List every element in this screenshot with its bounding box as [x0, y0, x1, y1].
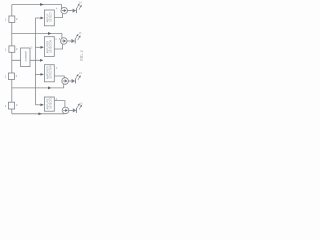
box 3 rotated text — [46, 65, 52, 79]
meter M4 — [62, 107, 69, 114]
svg-text:DETECTOR: DETECTOR — [49, 65, 52, 78]
box 1 rotated text — [46, 12, 52, 23]
wire branch to box 3 — [35, 73, 43, 75]
svg-text:SCANNER: SCANNER — [25, 50, 28, 61]
wire branch to box 2 — [35, 46, 43, 48]
svg-text:1: 1 — [5, 18, 7, 22]
wire tap 2 — [12, 34, 62, 39]
box 3 amplifier-detector — [44, 65, 54, 82]
LED D1 — [67, 4, 81, 13]
box 2 rotated text — [46, 40, 52, 54]
wire arrow on top bus — [40, 4, 43, 6]
meter M1 — [61, 7, 68, 14]
svg-text:2: 2 — [16, 103, 18, 107]
wire box 4 output to meter M4 — [54, 101, 65, 108]
transducer 10a — [9, 16, 15, 22]
box reference labels — [55, 6, 61, 101]
box 2 amplifier-detector — [44, 37, 54, 57]
svg-text:4: 4 — [56, 66, 58, 70]
LED D2 — [67, 34, 80, 43]
wire arrow on tap 4 — [48, 87, 52, 89]
svg-text:DETECTOR: DETECTOR — [49, 40, 52, 53]
wire top bus tap 1 — [12, 5, 62, 9]
wire box 2 output to meter M2 — [54, 44, 62, 49]
svg-text:4: 4 — [56, 6, 58, 10]
wire box 3 output to meter M3 — [54, 76, 64, 78]
svg-text:2: 2 — [16, 17, 18, 21]
box 5 oscillator — [21, 48, 30, 67]
wire tap 4 — [12, 84, 64, 88]
wire box 1 output to meter M1 — [54, 14, 62, 18]
box 1 amplifier-detector — [44, 10, 54, 26]
svg-text:2: 2 — [16, 47, 18, 51]
transducer 10b — [9, 46, 15, 52]
wire arrow on tap 2 — [48, 33, 52, 35]
wire middle bus vertical — [34, 18, 36, 105]
svg-text:3: 3 — [31, 46, 33, 50]
svg-text:DETECT: DETECT — [49, 12, 52, 22]
wire tap 3 — [12, 59, 43, 61]
svg-text:2: 2 — [16, 74, 18, 78]
svg-text:16: 16 — [79, 31, 82, 35]
svg-text:16: 16 — [79, 0, 82, 4]
meter M2 — [61, 38, 68, 45]
wire branch to box 1 — [35, 17, 43, 19]
box 4 amplifier-detector — [44, 97, 54, 111]
svg-text:1: 1 — [5, 48, 7, 52]
wire branch to box 4 — [35, 104, 43, 106]
svg-text:1: 1 — [5, 75, 7, 79]
svg-text:16: 16 — [80, 102, 83, 106]
svg-text:FIG. 2: FIG. 2 — [80, 50, 83, 60]
svg-text:DETECTO: DETECTO — [49, 97, 52, 109]
transducer 10c — [8, 73, 14, 80]
wire bottom bus tap 5 — [12, 113, 64, 115]
meter M3 — [62, 78, 69, 85]
wire left bus vertical — [11, 5, 13, 114]
LED D3 — [68, 74, 80, 83]
box 4 rotated text — [46, 97, 52, 109]
transducer 10d — [8, 102, 14, 109]
LED reference labels — [79, 0, 84, 105]
svg-text:1: 1 — [5, 104, 7, 108]
wire arrow on bottom bus — [38, 113, 41, 115]
svg-text:16: 16 — [79, 71, 82, 75]
LED D4 — [69, 104, 82, 113]
svg-text:1: 1 — [55, 37, 57, 41]
transducer reference labels — [5, 17, 18, 108]
